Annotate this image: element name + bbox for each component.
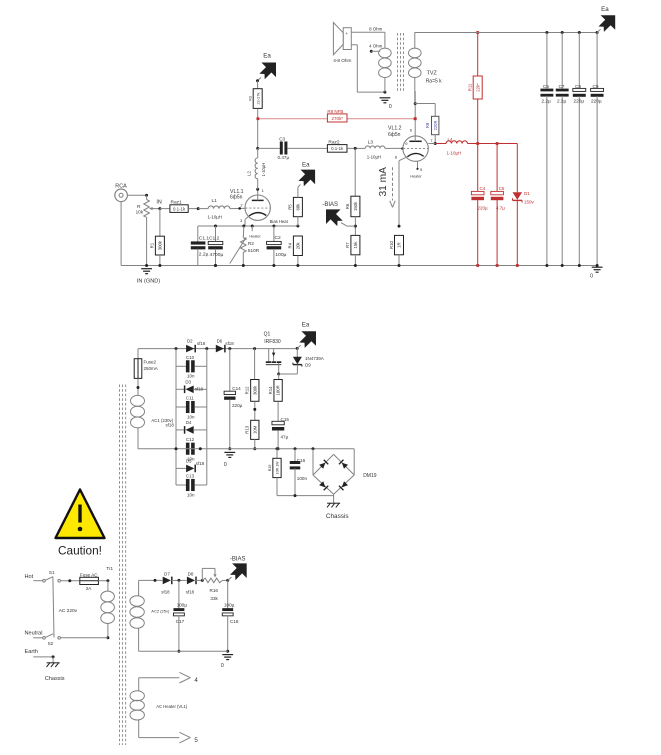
- svg-text:C4: C4: [480, 186, 486, 191]
- svg-text:0.47µ: 0.47µ: [278, 155, 290, 160]
- svg-text:Ea: Ea: [601, 6, 609, 13]
- svg-text:R7: R7: [345, 242, 350, 248]
- svg-text:10M: 10M: [252, 425, 257, 434]
- svg-text:22k*: 22k*: [475, 83, 480, 92]
- svg-text:C13: C13: [186, 473, 195, 478]
- svg-text:4.7µ: 4.7µ: [496, 206, 505, 211]
- svg-text:10R 1W: 10R 1W: [276, 461, 280, 475]
- svg-text:R13: R13: [245, 425, 250, 433]
- svg-text:Heater: Heater: [249, 234, 261, 238]
- svg-text:220µ: 220µ: [574, 99, 585, 104]
- svg-text:100R: 100R: [276, 385, 281, 395]
- svg-text:R1: R1: [150, 242, 155, 248]
- svg-text:250mA: 250mA: [144, 366, 158, 371]
- svg-text:68k: 68k: [296, 203, 301, 211]
- svg-text:C2: C2: [275, 235, 282, 241]
- svg-text:0: 0: [221, 663, 224, 669]
- svg-text:6ф5n: 6ф5n: [388, 132, 401, 138]
- svg-text:R6: R6: [345, 203, 350, 209]
- svg-text:5: 5: [194, 737, 198, 744]
- svg-text:D1: D1: [524, 191, 530, 196]
- svg-text:sf18: sf18: [186, 590, 195, 595]
- svg-text:sf18: sf18: [197, 341, 206, 346]
- svg-text:100n: 100n: [297, 476, 308, 481]
- svg-text:Earth: Earth: [25, 649, 38, 655]
- svg-text:Raz2: Raz2: [328, 140, 340, 146]
- svg-text:15k: 15k: [353, 241, 358, 249]
- svg-text:220R: 220R: [433, 121, 438, 131]
- svg-text:0.1-1k: 0.1-1k: [173, 206, 186, 211]
- svg-text:DM19: DM19: [363, 473, 377, 479]
- svg-text:Neutral: Neutral: [25, 630, 43, 636]
- svg-text:L3: L3: [368, 139, 374, 145]
- svg-text:Ea: Ea: [302, 322, 310, 329]
- svg-text:R14: R14: [268, 386, 273, 394]
- svg-text:Ra=5 k: Ra=5 k: [426, 79, 442, 85]
- svg-text:220µ: 220µ: [478, 206, 489, 211]
- svg-text:AC 220v: AC 220v: [59, 608, 78, 614]
- svg-text:0: 0: [590, 274, 593, 280]
- svg-text:1-10µH: 1-10µH: [261, 163, 266, 177]
- svg-text:C1.1: C1.1: [199, 235, 210, 241]
- svg-text:4700µ: 4700µ: [210, 252, 224, 258]
- svg-text:C14: C14: [232, 386, 241, 391]
- svg-text:C8: C8: [575, 84, 581, 89]
- svg-text:C5: C5: [499, 186, 505, 191]
- svg-text:sf18: sf18: [195, 387, 204, 392]
- svg-text:C12: C12: [186, 437, 195, 442]
- svg-text:220µ: 220µ: [591, 99, 602, 104]
- svg-text:C1.2: C1.2: [209, 235, 220, 241]
- svg-text:1-10µH: 1-10µH: [208, 215, 223, 220]
- svg-text:C3: C3: [279, 136, 285, 141]
- svg-text:1-10µH: 1-10µH: [447, 151, 462, 156]
- svg-text:L4: L4: [448, 137, 454, 142]
- svg-text:+: +: [345, 31, 348, 36]
- svg-text:C11: C11: [186, 395, 194, 400]
- svg-text:IN: IN: [156, 199, 161, 205]
- svg-text:D3: D3: [185, 380, 191, 385]
- svg-text:150v: 150v: [524, 200, 535, 205]
- svg-text:R5: R5: [288, 204, 293, 210]
- svg-text:Chassis: Chassis: [326, 513, 349, 520]
- svg-text:R15: R15: [268, 465, 272, 472]
- svg-text:Bias Heat: Bias Heat: [270, 219, 289, 224]
- svg-text:1R: 1R: [397, 242, 402, 248]
- svg-text:S1: S1: [49, 570, 55, 575]
- svg-text:R11: R11: [468, 83, 473, 91]
- svg-text:2A: 2A: [86, 586, 93, 591]
- svg-text:Ea: Ea: [263, 53, 271, 60]
- svg-text:D8: D8: [188, 571, 194, 576]
- svg-text:D4: D4: [186, 420, 192, 425]
- svg-text:C15: C15: [281, 417, 290, 422]
- svg-text:22-27k: 22-27k: [255, 93, 260, 105]
- svg-text:2.2µ: 2.2µ: [557, 99, 567, 104]
- svg-text:100µ: 100µ: [224, 603, 235, 608]
- svg-text:510R: 510R: [248, 248, 260, 253]
- svg-text:IN (GND): IN (GND): [137, 279, 160, 285]
- svg-text:Ea: Ea: [302, 161, 310, 168]
- svg-text:C18: C18: [230, 619, 239, 624]
- svg-text:47µ: 47µ: [281, 435, 289, 440]
- svg-text:L1: L1: [212, 198, 218, 204]
- svg-text:R4: R4: [288, 242, 293, 248]
- svg-text:300k: 300k: [158, 240, 163, 250]
- svg-text:D7: D7: [164, 571, 170, 576]
- svg-text:Tr1: Tr1: [106, 566, 113, 571]
- svg-text:R10: R10: [389, 241, 394, 249]
- svg-text:R3: R3: [248, 96, 253, 101]
- svg-text:10k: 10k: [136, 210, 144, 215]
- svg-text:L2: L2: [246, 170, 251, 176]
- svg-text:0: 0: [389, 104, 392, 110]
- svg-text:S2: S2: [48, 641, 54, 646]
- svg-text:300k: 300k: [252, 385, 257, 395]
- svg-text:20k: 20k: [296, 241, 301, 249]
- svg-text:100µ: 100µ: [177, 603, 188, 608]
- svg-text:D2: D2: [187, 338, 193, 343]
- svg-text:10n: 10n: [187, 414, 195, 419]
- svg-text:sf18: sf18: [225, 341, 234, 346]
- svg-text:4-8 Ohm: 4-8 Ohm: [333, 58, 351, 63]
- svg-text:R9: R9: [425, 122, 430, 128]
- svg-text:Chassis: Chassis: [45, 676, 65, 682]
- svg-text:R8 NFB: R8 NFB: [327, 109, 343, 114]
- svg-text:150k: 150k: [353, 201, 358, 211]
- svg-text:-BIAS: -BIAS: [322, 202, 338, 208]
- svg-text:C17: C17: [176, 619, 185, 624]
- svg-text:Raz1: Raz1: [171, 199, 183, 205]
- svg-text:Hot: Hot: [25, 574, 34, 580]
- svg-text:6ф5n: 6ф5n: [230, 195, 243, 201]
- svg-text:1-10µH: 1-10µH: [367, 155, 382, 160]
- svg-text:33k: 33k: [210, 596, 218, 601]
- svg-text:C16: C16: [297, 458, 306, 463]
- svg-text:R16: R16: [210, 588, 219, 593]
- svg-text:-BIAS: -BIAS: [230, 557, 246, 563]
- svg-text:C6: C6: [543, 84, 549, 89]
- svg-text:Q1: Q1: [264, 331, 271, 337]
- svg-text:0: 0: [224, 462, 227, 468]
- svg-text:D9: D9: [305, 362, 311, 367]
- svg-text:2.2µ: 2.2µ: [199, 252, 209, 258]
- svg-text:4 Ohm: 4 Ohm: [369, 44, 383, 49]
- svg-text:Heater: Heater: [410, 175, 422, 179]
- svg-text:sf18: sf18: [196, 461, 205, 466]
- svg-text:Caution!: Caution!: [58, 544, 102, 558]
- svg-text:Fuse AC: Fuse AC: [80, 572, 98, 577]
- svg-text:1N4739A: 1N4739A: [305, 356, 324, 361]
- svg-text:R12: R12: [245, 386, 250, 394]
- svg-text:10n: 10n: [187, 493, 195, 498]
- svg-text:Fuse2: Fuse2: [144, 360, 157, 365]
- svg-text:AC Heater (VL1): AC Heater (VL1): [156, 704, 188, 709]
- svg-text:0.1-1k: 0.1-1k: [331, 146, 344, 151]
- svg-text:10n: 10n: [187, 374, 195, 379]
- svg-text:sf18: sf18: [161, 590, 170, 595]
- svg-text:4: 4: [194, 677, 198, 684]
- svg-text:31 mA: 31 mA: [378, 167, 389, 197]
- svg-text:2.2µ: 2.2µ: [542, 99, 552, 104]
- svg-text:D5: D5: [186, 459, 192, 464]
- svg-text:220µ: 220µ: [232, 403, 243, 408]
- svg-text:sf18: sf18: [165, 422, 174, 427]
- svg-text:C7: C7: [559, 84, 565, 89]
- svg-text:8 Ohm: 8 Ohm: [369, 26, 383, 31]
- svg-text:R2: R2: [248, 241, 254, 246]
- svg-text:D6: D6: [217, 338, 223, 343]
- svg-text:RCA: RCA: [115, 184, 127, 190]
- svg-text:TVZ: TVZ: [427, 71, 438, 77]
- svg-text:AC2 (25v): AC2 (25v): [151, 609, 170, 614]
- svg-text:IRF830: IRF830: [264, 339, 281, 345]
- svg-text:VL1.2: VL1.2: [388, 125, 402, 131]
- svg-text:C10: C10: [186, 355, 195, 360]
- svg-text:270k*: 270k*: [331, 116, 343, 121]
- svg-text:100µ: 100µ: [275, 252, 286, 258]
- svg-text:C9: C9: [593, 84, 599, 89]
